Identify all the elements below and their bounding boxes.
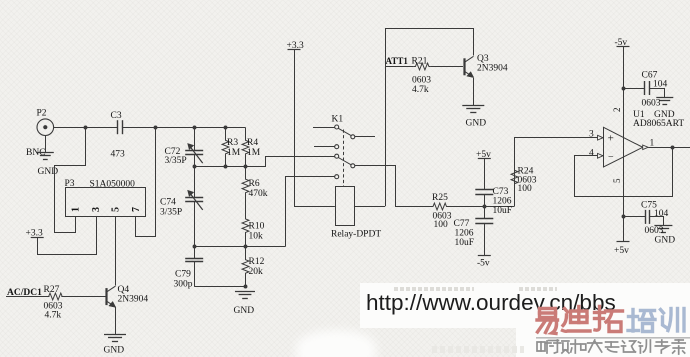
junction R4 bottom / R6 top [244, 165, 248, 169]
wire C79 top lead [194, 246, 196, 258]
relay P3 body [66, 188, 146, 217]
wire node row 3 (C74/C79/R10/R12) [194, 246, 285, 248]
wire input rail left (BNC to C3) [54, 127, 118, 129]
wire R27 to Q4 base [61, 296, 106, 298]
junction at BNC/P3 pin1 tap [84, 126, 88, 130]
trimmer capacitor C72 [185, 150, 203, 152]
pin arrow U1 output [643, 145, 649, 150]
contact K1 pole1 common [335, 125, 339, 129]
capacitor C3 [117, 120, 119, 134]
wire bottom row to ground [194, 286, 245, 288]
wire -5v rail through op-amp [623, 47, 625, 242]
wire C79 bottom lead [194, 262, 196, 287]
wire C73 to node [484, 195, 486, 207]
wire C67 to ground [649, 89, 664, 98]
wire node to C77 [484, 207, 486, 219]
contact K1 pole2 throw [351, 164, 355, 168]
relay coil Relay-DPDT body [336, 187, 355, 226]
white backdrop band bottom-right [360, 283, 690, 328]
watermark red character 易 [540, 309, 556, 318]
op-amp U1 body [604, 127, 643, 167]
wire input rail right (C3 to R4 top) [123, 127, 245, 129]
junction C72 bottom [193, 165, 197, 169]
wire K1 pole2 throw to R25 [355, 166, 431, 207]
resistor R6 [242, 167, 249, 205]
wire ATT1 to R21 [385, 66, 414, 68]
contact K1 pole2 common [335, 154, 339, 158]
resistor R25 [431, 203, 450, 210]
wire C74 bottom lead [194, 201, 196, 246]
wire C72 bottom lead [194, 154, 196, 167]
junction at P3 pin7 tap [154, 126, 158, 130]
wire C77 to -5v [484, 224, 486, 256]
wire C74 top lead [194, 167, 196, 198]
capacitor C75 [645, 210, 647, 224]
wire C72 top lead [194, 127, 196, 151]
resistor R27 [49, 293, 63, 300]
junction output feedback tap [671, 146, 675, 150]
dashed link K1 to relay coil [343, 130, 345, 187]
junction R12 bottom [244, 285, 248, 289]
junction C74 bottom / C79 top [193, 245, 197, 249]
watermark red character 拓 [595, 307, 600, 331]
junction C75 tap [622, 215, 626, 219]
resistor R24 [511, 170, 518, 184]
switch arm K1 pole 2 [338, 158, 351, 165]
resistor R12 [242, 246, 249, 286]
wire +3.3 down to relay coil [295, 50, 335, 207]
watermark red character 迪 [565, 309, 568, 313]
wire Q3 emitter to ground [473, 78, 475, 105]
contact K1 row4 [335, 175, 339, 179]
wire Q4 emitter to ground [115, 307, 117, 334]
wire K1 contact row2 stub [314, 146, 335, 148]
wire row3 up to K1 contact [286, 177, 335, 247]
contact K1 pole1 throw [351, 135, 355, 139]
wire op-amp output [648, 147, 690, 149]
switch arm K1 pole 1 [338, 128, 351, 135]
junction C73/C77 node [483, 205, 487, 209]
power -5v (C77) [478, 255, 491, 257]
watermark blue character 培 [631, 310, 634, 332]
pin arrow U1 pin3 [598, 135, 604, 140]
wire rail to P3 pin 7 [136, 127, 156, 236]
resistor R10 [242, 205, 249, 246]
watermark underline [536, 337, 690, 339]
contact K1 row2 [335, 145, 339, 149]
wire +3.3 to P3 pin 3 [38, 217, 97, 255]
ground (divider bottom) [235, 291, 255, 293]
wire node up to R24 [514, 183, 516, 207]
transistor Q4 [105, 288, 107, 305]
wire C75 to ground [650, 217, 664, 226]
wire K1 pole1 common stub [313, 127, 335, 129]
capacitor C73 [475, 189, 493, 191]
wire C75 left lead [623, 216, 645, 218]
wire AC/DC1 to R27 [6, 296, 49, 298]
watermark blue character 训 [661, 310, 664, 314]
wire Q3 collector to ATT1 rail (top) [385, 29, 474, 56]
capacitor C67 [644, 81, 646, 95]
capacitor C79 [185, 258, 203, 260]
wire BNC node down to P3 pin 1 [55, 127, 86, 232]
ground (C75) [654, 225, 672, 227]
resistor R4 [242, 127, 249, 167]
resistor R3 [222, 127, 229, 167]
junction R10 bottom / R12 top [244, 245, 248, 249]
ground (Q3 emitter) [462, 105, 484, 107]
faint emboss dashes [394, 287, 474, 291]
wire node row 2 (C72/R3/R4 bottoms) [194, 166, 245, 168]
junction R3 bottom [224, 165, 228, 169]
ground (BNC shield) [37, 152, 54, 154]
pin arrow U1 pin4 [598, 153, 604, 158]
junction at C72 top [193, 126, 197, 130]
wire feedback loop [575, 147, 673, 196]
wire R21 to Q3 base [431, 66, 463, 68]
transistor Q3 [463, 58, 465, 75]
connector P2 BNC jack [37, 119, 54, 136]
wire R25 to supply node [449, 206, 514, 208]
junction C67 tap [622, 87, 626, 91]
ground (Q4 emitter) [104, 334, 126, 336]
wire R24 to op-amp pin 3 [515, 138, 598, 172]
wire K1 pole1 throw stub [355, 136, 375, 138]
wire node row2 to K1 pole 2 [245, 157, 335, 167]
wire C67 left lead [623, 88, 645, 90]
junction at R3 top [224, 126, 228, 130]
url text http://www.ourdev.cn/bbs [366, 290, 616, 316]
wire ATT1 vertical [385, 28, 387, 206]
resistor R21 [414, 63, 431, 70]
wire +5v to C73 [484, 159, 486, 189]
wire ATT1 to relay coil right [355, 206, 386, 208]
power +5v (U1 bottom) [617, 241, 630, 243]
wire P3 pin 5 to Q4 collector [115, 217, 117, 286]
capacitor C77 [475, 218, 493, 220]
ground (C67) [656, 97, 673, 99]
watermark gray subtitle 射频和天线设计专家 [537, 342, 545, 351]
trimmer capacitor C74 [185, 197, 203, 199]
wire BNC shield to ground [45, 136, 47, 153]
